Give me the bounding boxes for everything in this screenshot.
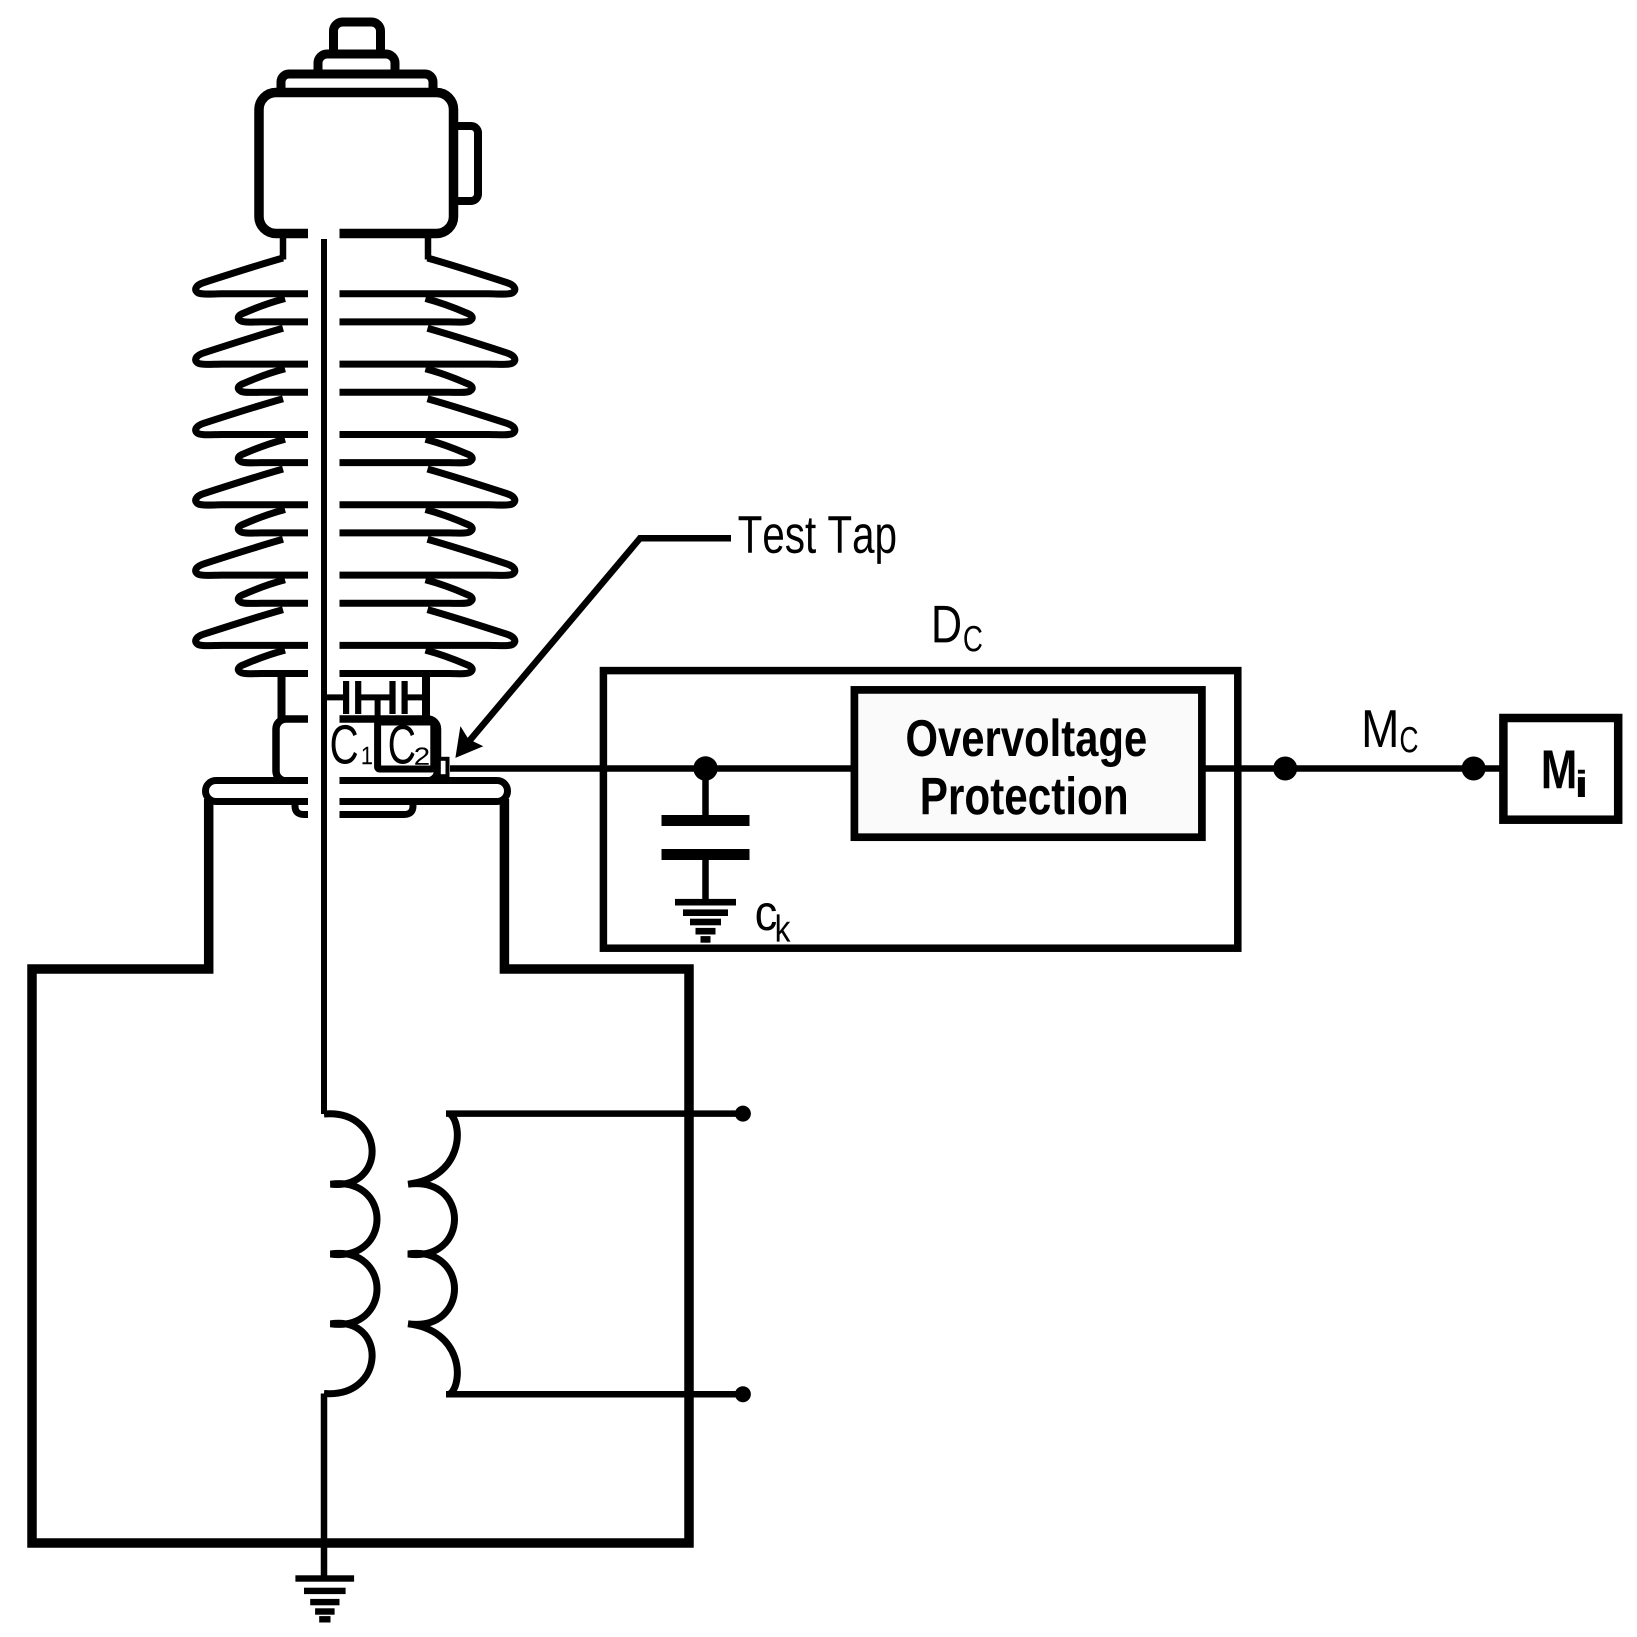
transformer secondary winding [408, 1114, 457, 1395]
capacitor C2 plates [389, 681, 395, 714]
insulator small shed pair 2 [238, 369, 338, 393]
label C2 [390, 725, 415, 764]
monitoring unit Dc box [603, 671, 1237, 949]
wire node to Ck [702, 769, 709, 819]
capacitor Ck plate 1 [662, 815, 750, 826]
bushing core left edge [278, 672, 286, 719]
wire C1 to C2 [358, 694, 392, 700]
monitoring instrument Mi box [1503, 718, 1618, 820]
mounting flange [206, 781, 508, 802]
transformer primary winding [324, 1114, 377, 1394]
insulator small shed pair 1 [238, 299, 338, 323]
capacitance box outline [276, 719, 438, 781]
bushing lower porcelain end [295, 799, 413, 815]
transformer tank outline [32, 799, 689, 1543]
bushing core channel [308, 227, 340, 819]
overvoltage protection box [854, 690, 1202, 837]
center conductor [321, 239, 327, 1114]
node at Ck branch [693, 756, 717, 780]
label Dc [935, 606, 960, 643]
secondary terminal wire top [446, 1110, 740, 1117]
secondary terminal wire bottom [446, 1391, 740, 1398]
wire Ck to ground [702, 858, 709, 901]
node Mc left [1273, 757, 1297, 781]
insulator large shed pair 3 [196, 399, 338, 435]
bushing neck right edge [425, 233, 432, 260]
insulator large shed pair 4 [196, 469, 338, 505]
bushing head tier 2 [318, 54, 395, 78]
secondary terminal node top [735, 1106, 751, 1122]
capacitance C2 cell box [378, 722, 434, 769]
insulator large shed pair 5 [196, 539, 338, 575]
wire C2 to flange [405, 694, 427, 700]
bushing neck left edge [280, 233, 287, 260]
bushing head body [259, 93, 454, 234]
wire conductor to C1 [324, 694, 344, 700]
capacitor Ck plate 2 [662, 849, 750, 860]
wire Mc link [1202, 765, 1503, 772]
insulator small shed pair 6 [238, 650, 338, 674]
ground symbol bottom [295, 1575, 354, 1581]
label Mi [1544, 750, 1575, 788]
label C1 [332, 725, 358, 764]
insulator small shed pair 4 [238, 510, 338, 534]
ground symbol Ck [675, 899, 736, 906]
test tap leader line [468, 538, 731, 742]
label Test Tap [739, 516, 762, 553]
insulator large shed pair 6 [196, 610, 338, 646]
bushing head tier 3 [281, 74, 433, 98]
capacitor C1 plates [343, 681, 349, 714]
bushing core right edge [422, 672, 430, 721]
insulator large shed pair 2 [196, 328, 338, 364]
wire to ground [321, 1394, 328, 1579]
node Mc right [1462, 757, 1486, 781]
tap junction wire down to test tap cell [375, 697, 381, 722]
test tap leader arrowhead [458, 731, 479, 755]
label Mc [1365, 710, 1396, 747]
bushing top terminal cap [334, 22, 381, 64]
test tap terminal [439, 759, 448, 776]
insulator large shed pair 1 [196, 258, 338, 294]
overvoltage protection label [907, 720, 936, 757]
bushing head side boss [445, 126, 478, 201]
label ck [757, 903, 777, 930]
wire test tap to overvoltage protection [450, 765, 858, 772]
insulator small shed pair 3 [238, 439, 338, 463]
insulator small shed pair 5 [238, 580, 338, 604]
secondary terminal node bottom [735, 1386, 751, 1402]
